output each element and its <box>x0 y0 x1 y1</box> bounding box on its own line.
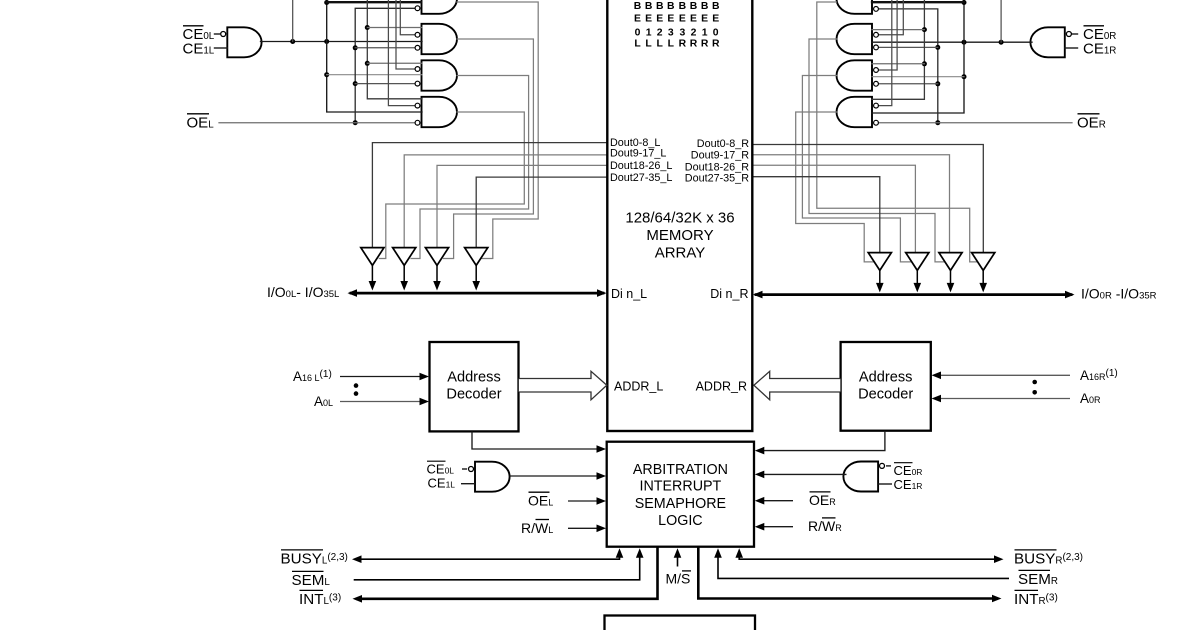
wire G2L output to T3L enable <box>444 39 534 259</box>
label OEL lower <box>528 493 553 509</box>
wire stub to G3R top input <box>872 63 924 65</box>
label SEMR <box>1018 571 1058 588</box>
wire Dout27-35_L to T4L <box>476 177 607 247</box>
label A0R <box>1080 391 1101 406</box>
node on CE net at x326.7 <box>324 39 329 44</box>
bubble G2R input a <box>874 32 879 37</box>
svg-text:R/WL: R/WL <box>521 520 553 536</box>
label CE0L <box>183 26 215 43</box>
svg-text:Dout27-35_R: Dout27-35_R <box>685 172 749 184</box>
node OE at OER line <box>935 120 940 125</box>
label BUSYL(2,3) <box>281 551 348 568</box>
svg-text:I/O0R -I/O35R: I/O0R -I/O35R <box>1081 286 1157 302</box>
and-gate G1L (partial, top) <box>422 0 458 14</box>
node OE to G3L <box>353 81 358 86</box>
label CE1R lower <box>894 477 923 492</box>
ce-gate U1L <box>227 27 261 57</box>
wire CE to G1L (thick top) <box>327 1 421 3</box>
svg-text:Address: Address <box>447 370 501 386</box>
wire stub to G3L top input <box>367 62 422 64</box>
ce-gate U4L (lower left) <box>475 462 510 492</box>
and-gate G1R (partial, top) <box>837 0 873 14</box>
bubble G3L input a <box>415 67 420 72</box>
wire CE0R input dash <box>1073 33 1078 35</box>
wire Dout9-17_L to T2L <box>404 155 607 247</box>
wire BE1 vertical to G2L bubble <box>400 0 414 35</box>
wire G4R output to TR4 enable <box>796 112 874 262</box>
node ellipsis dots left <box>354 383 359 388</box>
node OE at OEL line <box>353 120 358 125</box>
and-gate G3L <box>422 60 458 90</box>
label INTL(3) <box>299 591 341 608</box>
bubble G2L input a <box>415 32 420 37</box>
wire OE vertical column x937.8 <box>879 9 938 123</box>
wire CE1R input <box>1065 47 1078 49</box>
buffer T2L <box>393 248 416 266</box>
wire CE0L dash lower <box>462 468 467 470</box>
bubble CE0L lower <box>469 467 474 472</box>
svg-text:M/S: M/S <box>666 571 691 587</box>
node BE-all to G3R <box>922 61 927 66</box>
label SEML <box>292 572 331 589</box>
wire OER input line <box>879 122 1072 124</box>
wire OE stub to G3R bubble <box>879 83 938 85</box>
svg-text:Dout0-8_R: Dout0-8_R <box>697 138 749 150</box>
svg-text:Dout27-35_L: Dout27-35_L <box>610 172 672 184</box>
wire decoder R to arbitration <box>760 431 885 451</box>
label M/S <box>666 571 691 587</box>
svg-text:ADDR_R: ADDR_R <box>696 380 747 394</box>
svg-text:OER: OER <box>1077 115 1106 132</box>
wire CE0L input dash <box>215 33 220 35</box>
svg-text:CE1R: CE1R <box>894 477 923 492</box>
svg-text:A16 L(1): A16 L(1) <box>293 369 332 384</box>
wire T1L output to bus <box>371 265 373 284</box>
wire vertical CE branch x964 <box>872 0 964 113</box>
label CE1L <box>183 41 215 58</box>
and-gate G4R <box>837 97 873 127</box>
and-gate G2L <box>422 24 458 54</box>
bubble G4L input b <box>415 120 420 125</box>
and-gate G3R <box>837 60 873 90</box>
and-gate G4L <box>422 97 458 127</box>
svg-text:128/64/32K x 36: 128/64/32K x 36 <box>625 210 734 227</box>
wire OER to arbitration <box>760 500 793 502</box>
svg-text:Dout9-17_R: Dout9-17_R <box>691 150 749 162</box>
svg-text:CE0R: CE0R <box>894 463 923 478</box>
wire CE1R input lower <box>878 483 892 485</box>
svg-text:ARRAY: ARRAY <box>655 244 706 261</box>
buffer TR3 <box>906 253 929 271</box>
wire Dout9-17_R to TR2 <box>753 155 950 253</box>
arbitration block U3 <box>607 442 754 547</box>
svg-text:ADDR_L: ADDR_L <box>614 380 663 394</box>
wire BUSYR (bidirectional) <box>739 552 1000 559</box>
I/O bus right <box>756 293 1071 296</box>
inverter bubble on CE0L input <box>221 32 226 37</box>
svg-text:Address: Address <box>859 370 913 386</box>
node BE-all to G2L <box>365 25 370 30</box>
svg-text:CE1L: CE1L <box>428 476 456 491</box>
wire Dout0-8_R to TR1 <box>753 145 984 253</box>
bubble CE0R lower <box>880 463 885 468</box>
wire G3L output to T2L enable <box>411 76 529 259</box>
buffer T1L <box>361 248 384 266</box>
svg-text:R/WR: R/WR <box>808 518 842 534</box>
label CE1R <box>1083 41 1116 58</box>
address decoder U2R <box>841 342 931 431</box>
node CE top branch right <box>962 0 967 5</box>
wire A16R input <box>940 374 1070 376</box>
svg-text:I/O0L- I/O35L: I/O0L- I/O35L <box>267 284 339 300</box>
wire CE stub to G3L plain input <box>327 74 422 76</box>
bus arrow decoder R to ADDR_R (hollow) <box>754 371 841 400</box>
svg-text:BUSYR(2,3): BUSYR(2,3) <box>1014 551 1083 568</box>
wire CE1L input <box>215 47 228 49</box>
wire BE3 vertical to G4L bubble <box>388 0 414 106</box>
node OE to G3R <box>935 81 940 86</box>
memory array block U5 <box>607 0 752 431</box>
svg-text:INTR(3): INTR(3) <box>1014 591 1058 608</box>
svg-text:OER: OER <box>809 492 836 508</box>
svg-text:MEMORY: MEMORY <box>646 227 713 244</box>
node BE-all to G3L <box>365 61 370 66</box>
wire A0L input <box>340 401 420 403</box>
node on CE net at x1001.1 <box>999 40 1004 45</box>
node on CE net at x292.7 <box>290 39 295 44</box>
wire BE2 vertical to G3L bubble <box>396 0 415 69</box>
wire CE gate R to arbitration <box>760 473 847 475</box>
label I/O0L-I/O35L <box>267 284 339 300</box>
svg-text:A16R(1): A16R(1) <box>1080 368 1118 383</box>
wire A0R input <box>940 398 1070 400</box>
svg-text:BUSYL(2,3): BUSYL(2,3) <box>281 551 348 568</box>
label CE1L lower <box>428 476 456 491</box>
svg-text:INTERRUPT: INTERRUPT <box>639 479 721 495</box>
wire T2L output to bus <box>403 265 405 284</box>
wire CE output net <box>261 41 423 43</box>
wire Dout18-26_L to T3L <box>437 165 607 246</box>
wire OE stub to G2L bubble <box>355 47 414 49</box>
wire CE gate to arbitration <box>510 475 601 477</box>
bottom block (partial) <box>605 616 756 630</box>
wire TR3 output to bus <box>916 271 918 287</box>
svg-text:A0L: A0L <box>314 394 333 409</box>
wire INTL output (heavy) <box>356 548 658 599</box>
bubble G4L input a <box>415 103 420 108</box>
svg-text:Decoder: Decoder <box>446 387 501 403</box>
bubble G3R input a <box>874 68 879 73</box>
bubble G4R input b <box>874 120 879 125</box>
wire G4L output to T1L enable <box>379 112 524 259</box>
wire G1R output to TR1 enable <box>817 2 977 262</box>
label OEL <box>187 115 215 132</box>
wire T4L output to bus <box>475 265 477 284</box>
svg-text:LOGIC: LOGIC <box>658 513 703 529</box>
bubble G4R input a <box>874 103 879 108</box>
wire BE-all vertical x367.3 <box>367 0 422 99</box>
buffer TR2 <box>939 253 962 271</box>
svg-text:CE1L: CE1L <box>183 41 215 58</box>
svg-text:Di n_R: Di n_R <box>710 287 748 301</box>
node OE to G2R <box>935 45 940 50</box>
label CE0R lower <box>894 463 923 478</box>
I/O bus left <box>351 292 603 295</box>
wire BE3 vertical to G4R bubble <box>879 0 892 106</box>
wire M/S input <box>677 552 679 567</box>
wire OEL input line <box>219 122 415 124</box>
wire A16L input <box>340 376 420 378</box>
node CE to G3L <box>324 72 329 77</box>
label OER lower <box>809 492 836 508</box>
svg-text:ARBITRATION: ARBITRATION <box>633 462 728 478</box>
label A16R(1) <box>1080 368 1118 383</box>
svg-text:Dout9-17_L: Dout9-17_L <box>610 148 666 160</box>
bubble G2R input b <box>874 45 879 50</box>
wire Dout18-26_R to TR3 <box>753 165 916 252</box>
wire CE1L input lower <box>461 483 475 485</box>
wire CE0R dash lower <box>886 465 891 467</box>
wire CE output net right <box>872 41 1032 43</box>
node OE to G2L <box>353 45 358 50</box>
label OER <box>1077 115 1106 132</box>
wire R/WR to arbitration <box>760 526 793 528</box>
wire OE stub to G2R bubble <box>879 46 938 48</box>
wire TR1 output to bus <box>982 271 984 287</box>
wire SEMR input <box>718 552 1009 578</box>
bubble G2L input b <box>415 45 420 50</box>
svg-text:INTL(3): INTL(3) <box>299 591 341 608</box>
wire BE2 vertical to G3R bubble <box>879 0 897 70</box>
pin labels BE0L-BE3L BE3R-BE0R (vertical text matrix) <box>634 1 720 50</box>
and-gate G2R <box>837 24 873 54</box>
svg-text:SEMR: SEMR <box>1018 571 1058 588</box>
label A0L <box>314 394 333 409</box>
wire stub to G2L top input <box>367 27 422 29</box>
svg-text:Di n_L: Di n_L <box>611 287 647 301</box>
wire CE to G1R (thick top) <box>872 1 964 3</box>
node BE-all to G2R <box>922 27 927 32</box>
wire G2R output to TR2 enable <box>809 39 945 262</box>
ce-gate U1R <box>1030 27 1064 57</box>
wire R/WL to arbitration <box>568 527 600 529</box>
wire TR4 output to bus <box>879 271 881 287</box>
node CE top branch <box>324 0 329 5</box>
node ellipsis dots right <box>1032 380 1037 385</box>
bubble G1L input <box>415 6 420 11</box>
wire G1L output to T4L enable <box>457 2 538 259</box>
label R/WR <box>808 518 842 534</box>
wire OE vertical column x355.2 <box>355 8 414 122</box>
wire BE1 vertical to G2R bubble <box>879 0 903 35</box>
svg-text:OEL: OEL <box>187 115 215 132</box>
wire OE stub to G3L bubble <box>355 83 414 85</box>
wire BUSYL (bidirectional) <box>355 552 620 559</box>
wire Dout0-8_L to T1L <box>372 143 607 247</box>
svg-text:Dout18-26_L: Dout18-26_L <box>610 160 672 172</box>
label I/O0R-I/O35R <box>1081 286 1157 302</box>
address decoder U2L <box>430 342 519 431</box>
wire vertical CE branch x326.7 <box>327 0 422 112</box>
wire CE stub to G3R plain input <box>872 76 964 78</box>
label A16L(1) <box>293 369 332 384</box>
label CE0L lower <box>427 461 455 476</box>
inverter bubble on CE0R input <box>1066 32 1071 37</box>
wire OEL to arbitration <box>568 500 600 502</box>
svg-text:Decoder: Decoder <box>858 387 913 403</box>
buffer TR4 <box>868 253 891 271</box>
svg-text:A0R: A0R <box>1080 391 1101 406</box>
wire TR2 output to bus <box>950 271 952 287</box>
wire G3R output to TR3 enable <box>802 76 911 262</box>
bubble G1R input <box>874 6 879 11</box>
label BUSYR(2,3) <box>1014 551 1083 568</box>
wire vertical R/W net x292.7 <box>292 0 294 42</box>
wire Dout27-35_R to TR4 <box>753 177 880 253</box>
wire vertical R/W net x1001.1 <box>1000 0 1002 42</box>
bus arrow decoder L to ADDR_L (hollow) <box>519 371 607 400</box>
wire BE-all vertical x924.4 <box>872 0 924 99</box>
ce-gate U4R (lower right) <box>843 462 878 492</box>
svg-text:SEMAPHORE: SEMAPHORE <box>635 496 726 512</box>
wire stub to G2R top input <box>872 29 924 31</box>
wire INTR output (heavy) <box>698 548 998 599</box>
buffer T3L <box>425 248 448 266</box>
svg-text:SEML: SEML <box>292 572 331 589</box>
label INTR(3) <box>1014 591 1058 608</box>
bubble G3R input b <box>874 81 879 86</box>
wire decoder L to arbitration <box>472 432 600 450</box>
svg-text:CE1R: CE1R <box>1083 41 1116 58</box>
svg-text:CE0L: CE0L <box>427 461 455 476</box>
wire SEML input <box>354 552 640 580</box>
buffer T4L <box>465 248 488 266</box>
bubble G3L input b <box>415 81 420 86</box>
svg-text:OEL: OEL <box>528 493 553 509</box>
node on CE net at x964 <box>962 40 967 45</box>
buffer TR1 <box>972 253 995 271</box>
label R/WL <box>521 520 553 536</box>
wire T3L output to bus <box>436 265 438 284</box>
label CE0R <box>1083 26 1116 43</box>
node CE to G3R <box>962 74 967 79</box>
